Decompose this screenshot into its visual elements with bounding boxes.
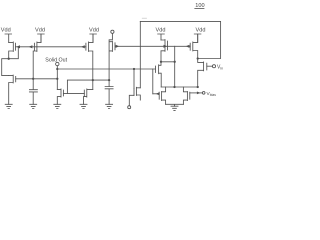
terminal M14 gate circle — [128, 106, 131, 109]
wire mirror gate — [63, 92, 84, 94]
arrow M13 gate — [197, 92, 201, 95]
wire W1 drop to M14 — [133, 69, 135, 89]
stray mark above box corner — [142, 17, 146, 19]
arrow M3 gate — [81, 45, 85, 48]
arrow M12 gate — [156, 92, 160, 95]
wire M11 gate lead — [207, 65, 213, 67]
node pair bus dot — [173, 86, 175, 88]
power Vdd2 bar — [38, 34, 45, 42]
wire left rail — [2, 59, 9, 76]
arrow M1 gate — [16, 45, 20, 48]
wire center rail down — [174, 62, 176, 87]
wire gate bus M1-M2-M3 — [16, 46, 86, 48]
terminal Vin circle — [212, 65, 215, 68]
wire M10 gate link — [152, 69, 154, 94]
transistor M5 nmos mirror left — [57, 89, 63, 104]
transistor M13 pair right — [183, 87, 189, 104]
power Vdd5 bar — [194, 34, 201, 42]
transistor M10 cascode — [156, 62, 162, 87]
power Vdd3 label — [89, 27, 99, 33]
wire pair sources join — [166, 104, 184, 106]
svg-text:bias: bias — [210, 93, 216, 97]
power Vdd3 bar — [90, 34, 97, 42]
wire gate bus M7-M8-M9 — [115, 45, 190, 47]
transistor M7 — [109, 33, 115, 86]
node bus dot A — [32, 78, 34, 80]
power Vdd1 bar — [5, 34, 12, 42]
wire feedback top — [140, 21, 220, 58]
svg-text:Vdd: Vdd — [196, 27, 206, 33]
node W2 dot t3 drain — [92, 79, 94, 81]
wire M13 gate lead — [190, 92, 203, 94]
power Vdd4 label — [156, 27, 166, 33]
power Vdd5 label — [196, 27, 206, 33]
transistor M12 pair left — [159, 87, 165, 104]
svg-text:Vdd: Vdd — [156, 27, 166, 33]
terminal Vbias circle — [202, 92, 205, 95]
wire pair top bus — [161, 86, 198, 88]
terminal Solid Out circle — [56, 62, 59, 65]
wire M1 diode link — [9, 47, 19, 59]
transistor M11 — [198, 59, 207, 88]
arrow M2 gate — [29, 45, 33, 48]
ground G4 — [80, 104, 87, 108]
ground G2 — [30, 104, 37, 108]
node M9 drain dot — [197, 57, 199, 59]
node W2 dot t4 drain — [108, 79, 110, 81]
svg-text:Vdd: Vdd — [89, 27, 99, 33]
wire W1 — [57, 68, 155, 70]
arrow M9 gate — [186, 45, 190, 48]
node bus dot B — [56, 78, 58, 80]
wire mirror gate riser — [67, 80, 109, 93]
wire feedback drop — [139, 21, 141, 87]
label Vin — [217, 64, 223, 70]
svg-text:Vdd: Vdd — [1, 27, 11, 33]
node W1 end dot — [133, 68, 135, 70]
transistor M1 — [9, 42, 16, 59]
node M8 drain dot — [160, 61, 162, 63]
power Vdd2 label — [35, 27, 45, 33]
transistor M9 — [190, 34, 198, 59]
capacitor C1 — [29, 79, 37, 105]
wire M12 gate lead — [153, 93, 159, 95]
transistor M2 — [33, 34, 41, 79]
ground G5 — [106, 104, 113, 108]
node pair bus dot right — [197, 86, 199, 88]
transistor M8 — [161, 40, 168, 62]
transistor M6 nmos mirror right — [84, 89, 93, 104]
terminal input circle top — [111, 30, 114, 33]
arrow M8 gate — [164, 45, 168, 48]
node center rail dot — [174, 61, 176, 63]
label Vbias — [207, 91, 217, 97]
label 100 — [195, 3, 205, 9]
svg-text:Vdd: Vdd — [35, 27, 45, 33]
transistor M14 startup — [134, 87, 140, 100]
wire Solid Out stem — [56, 66, 58, 90]
ground G1 — [5, 104, 12, 108]
power Vdd4 bar — [158, 34, 165, 40]
svg-text:in: in — [220, 66, 223, 70]
wire nmos gate bus — [16, 78, 58, 80]
power Vdd1 label — [1, 27, 11, 33]
ground G7 — [171, 106, 178, 110]
node W1 tap dot — [56, 68, 58, 70]
capacitor C2 — [105, 87, 113, 105]
wire M14 gate — [129, 95, 134, 106]
ground G3 — [54, 104, 61, 108]
node M1 drain dot — [8, 58, 10, 60]
transistor M4 nmos left — [9, 75, 16, 104]
label Solid Out — [45, 58, 67, 64]
arrow M7 gate — [116, 45, 120, 48]
transistor M3 — [86, 34, 93, 89]
wire M8 diode link — [161, 46, 175, 62]
